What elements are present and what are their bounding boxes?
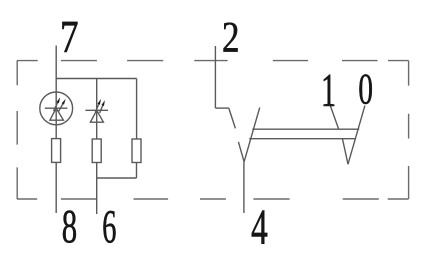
LED D1 light arrow 2 xyxy=(58,99,65,112)
resistor R3 xyxy=(132,139,141,163)
LED D2 light arrow 2 xyxy=(100,100,105,113)
linkage bar bottom xyxy=(249,138,356,140)
terminal label 6 xyxy=(103,211,115,243)
wire R1 to terminal 8 xyxy=(55,162,57,213)
position label 1 xyxy=(324,75,335,106)
position 1 leader line xyxy=(330,106,338,130)
switch fixed contact diagonal xyxy=(229,108,236,128)
linkage bar top xyxy=(252,128,359,130)
position 0 leader / notch right arm xyxy=(348,106,365,165)
wire below R3 xyxy=(136,163,138,179)
terminal label 4 xyxy=(252,211,268,244)
enclosure dashed border bottom xyxy=(17,198,409,200)
switch notch left arm xyxy=(238,142,244,162)
wire jog horizontal xyxy=(215,107,228,109)
enclosure dashed border top xyxy=(17,60,409,62)
position label 0 xyxy=(359,74,372,104)
LED D1 cathode bar inside lamp xyxy=(45,107,68,109)
wire to terminal 4 xyxy=(243,162,245,213)
position notch left arm xyxy=(343,139,349,164)
lamp circle HL xyxy=(40,92,73,125)
wire branch 3 vertical xyxy=(136,79,138,140)
LED D1 light arrow 1 xyxy=(54,97,61,111)
wire R2 to terminal 6 xyxy=(96,163,98,215)
terminal label 8 xyxy=(63,211,76,243)
terminal label 7 xyxy=(62,22,77,52)
wire branch 2 vertical through LED xyxy=(96,79,98,140)
resistor R2 xyxy=(92,139,101,163)
enclosure dashed border left xyxy=(16,61,18,199)
LED D2 cathode bar xyxy=(85,109,108,111)
resistor R1 xyxy=(52,139,61,163)
wire bottom junction horizontal xyxy=(97,177,137,179)
LED D1 triangle xyxy=(50,108,64,120)
switch moving contact blade xyxy=(244,108,260,162)
LED D2 triangle xyxy=(90,110,103,122)
wire terminal 2 vertical xyxy=(214,46,216,108)
wire top junction horizontal xyxy=(56,78,136,80)
LED D2 light arrow 1 xyxy=(95,99,101,112)
wire terminal 7 down through lamp to resistor R1 xyxy=(55,46,57,139)
enclosure dashed border right xyxy=(408,61,410,199)
terminal label 2 xyxy=(223,23,237,52)
